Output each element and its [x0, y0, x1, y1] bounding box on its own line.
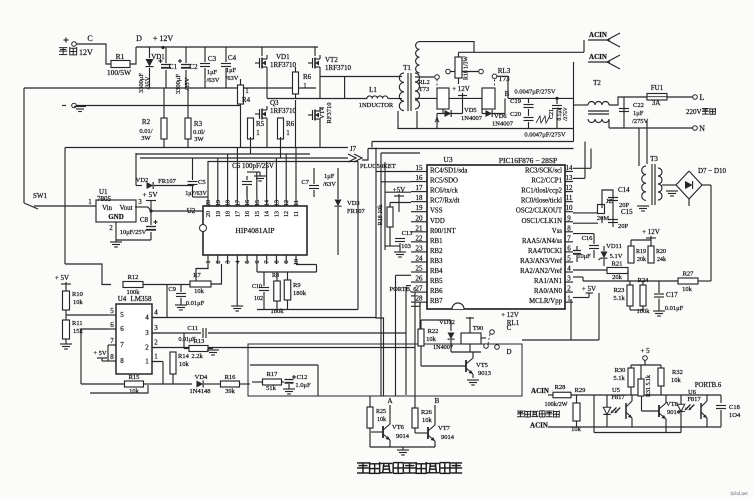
svg-text:RB1: RB1	[430, 238, 442, 245]
svg-text:R21: R21	[612, 261, 623, 268]
svg-text:27: 27	[416, 285, 424, 293]
svg-text:23: 23	[416, 244, 424, 252]
svg-text:8: 8	[274, 261, 280, 264]
svg-text:1: 1	[256, 129, 260, 137]
svg-text:C12: C12	[297, 374, 308, 381]
svg-text:13: 13	[274, 211, 280, 217]
svg-text:RA3/AN3/Vref: RA3/AN3/Vref	[520, 258, 563, 265]
svg-text:4: 4	[567, 265, 571, 273]
svg-text:R14: R14	[178, 353, 190, 360]
svg-text:3: 3	[154, 324, 158, 332]
svg-text:13: 13	[274, 200, 280, 206]
svg-text:ACIN: ACIN	[589, 31, 607, 39]
svg-text:RC5/SDO: RC5/SDO	[430, 178, 458, 185]
svg-text:3300μF: 3300μF	[175, 74, 182, 94]
svg-text:C3: C3	[208, 55, 217, 63]
svg-text:VT4: VT4	[319, 106, 326, 119]
svg-text:3: 3	[567, 275, 571, 283]
svg-text:9: 9	[567, 214, 571, 222]
svg-text:T73: T73	[419, 86, 429, 93]
svg-text:/275V: /275V	[632, 118, 649, 125]
svg-text:1O4: 1O4	[729, 412, 741, 419]
svg-text:R13: R13	[194, 338, 205, 345]
svg-text:5.1k: 5.1k	[613, 375, 625, 382]
svg-text:7: 7	[120, 341, 124, 349]
svg-text:16: 16	[245, 200, 251, 206]
svg-text:3W: 3W	[141, 135, 151, 142]
svg-text:R20: R20	[656, 249, 666, 255]
svg-text:5.1V: 5.1V	[610, 253, 623, 260]
svg-text:3: 3	[226, 261, 232, 264]
svg-text:2: 2	[109, 224, 113, 232]
svg-text:51k: 51k	[266, 385, 277, 392]
svg-text:FR107: FR107	[347, 208, 365, 215]
svg-text:1N4148: 1N4148	[190, 388, 211, 395]
svg-text:/63V: /63V	[226, 75, 239, 82]
svg-text:9014: 9014	[396, 433, 410, 440]
svg-text:C13: C13	[402, 230, 413, 237]
svg-text:VDD: VDD	[430, 218, 445, 225]
svg-text:28: 28	[416, 295, 424, 303]
svg-text:ticbd.net: ticbd.net	[730, 492, 748, 497]
svg-text:R00/1NT: R00/1NT	[430, 228, 457, 235]
svg-text:5.1k: 5.1k	[613, 295, 625, 302]
svg-text:C11: C11	[187, 325, 198, 332]
svg-text:N: N	[699, 124, 705, 133]
svg-text:R5: R5	[256, 120, 265, 128]
svg-text:20k: 20k	[637, 257, 646, 263]
svg-text:VT5: VT5	[476, 362, 488, 369]
svg-text:R19: R19	[636, 249, 646, 255]
svg-text:1μF: 1μF	[324, 173, 335, 180]
svg-text:C21: C21	[549, 109, 555, 119]
svg-text:PLUC50KET: PLUC50KET	[360, 163, 396, 170]
svg-text:VT7: VT7	[438, 425, 451, 432]
svg-text:C19: C19	[510, 98, 521, 105]
svg-text:5: 5	[110, 307, 114, 315]
svg-text:1μF: 1μF	[633, 110, 644, 117]
svg-text:20M: 20M	[597, 215, 610, 222]
svg-text:R7: R7	[193, 272, 201, 279]
svg-text:+ 5V: + 5V	[55, 274, 69, 282]
svg-text:17: 17	[235, 200, 241, 206]
svg-text:C7: C7	[301, 179, 309, 186]
svg-text:+ 12V: + 12V	[153, 34, 174, 43]
svg-text:100/5W: 100/5W	[107, 68, 132, 77]
svg-text:9013: 9013	[478, 370, 491, 377]
svg-text:U2: U2	[187, 207, 196, 215]
svg-text:R8: R8	[272, 273, 279, 279]
svg-text:C10: C10	[252, 284, 262, 290]
svg-text:10k: 10k	[73, 299, 84, 306]
svg-text:RC6/tx/ck: RC6/tx/ck	[430, 188, 459, 195]
svg-text:U3: U3	[443, 155, 452, 164]
svg-text:15: 15	[255, 211, 261, 217]
svg-text:FR107: FR107	[158, 178, 176, 185]
svg-text:9014: 9014	[441, 434, 455, 441]
svg-text:24: 24	[416, 254, 424, 262]
svg-text:1N4007: 1N4007	[433, 344, 453, 351]
svg-text:RB6: RB6	[430, 288, 443, 295]
svg-text:RC3/SCK/scl: RC3/SCK/scl	[525, 168, 562, 175]
svg-text:T3: T3	[650, 155, 658, 163]
svg-text:R10: R10	[72, 291, 83, 298]
svg-text:R18 1/3W: R18 1/3W	[464, 55, 470, 80]
svg-text:/35V: /35V	[145, 76, 152, 89]
svg-text:12: 12	[284, 211, 290, 217]
svg-text:Vout: Vout	[119, 204, 132, 212]
svg-text:22: 22	[416, 234, 424, 242]
svg-text:ACIN: ACIN	[589, 53, 607, 61]
svg-text:GND: GND	[108, 213, 124, 221]
svg-text:1N4007: 1N4007	[461, 115, 483, 122]
svg-text:1RF3710: 1RF3710	[270, 107, 297, 115]
svg-text:T2: T2	[593, 79, 601, 87]
svg-text:/275V: /275V	[563, 107, 569, 121]
svg-text:16: 16	[416, 174, 424, 182]
svg-text:10k: 10k	[671, 377, 682, 384]
svg-text:1.0μF: 1.0μF	[295, 382, 311, 389]
svg-text:C2: C2	[189, 63, 198, 71]
svg-text:2: 2	[145, 344, 149, 352]
svg-text:102: 102	[254, 296, 263, 302]
svg-text:VT2: VT2	[325, 56, 338, 64]
svg-text:R23: R23	[614, 287, 625, 294]
svg-text:SW1: SW1	[33, 192, 48, 200]
svg-text:1μF/63V: 1μF/63V	[185, 191, 207, 197]
svg-text:RB7: RB7	[430, 298, 443, 305]
svg-text:15: 15	[416, 164, 424, 172]
svg-text:R11: R11	[72, 320, 83, 327]
svg-text:20: 20	[206, 211, 212, 217]
svg-text:ACIN: ACIN	[530, 422, 548, 430]
svg-text:1: 1	[88, 198, 92, 206]
svg-text:26: 26	[416, 275, 424, 283]
svg-text:18: 18	[226, 200, 232, 206]
svg-text:RF3710: RF3710	[326, 103, 333, 124]
svg-text:21: 21	[416, 224, 424, 232]
svg-text:39k: 39k	[225, 388, 236, 395]
svg-text:VD4: VD4	[195, 374, 208, 381]
svg-text:0.01/: 0.01/	[139, 128, 152, 135]
svg-text:Vss: Vss	[552, 228, 563, 235]
svg-text:R26: R26	[421, 409, 433, 416]
svg-text:+ 5V: + 5V	[582, 285, 596, 293]
svg-text:VD2: VD2	[136, 177, 149, 184]
svg-text:RC1/tlosl/ccp2: RC1/tlosl/ccp2	[521, 188, 562, 195]
svg-text:RA2/AN2/Vref: RA2/AN2/Vref	[520, 268, 563, 275]
svg-text:RB5: RB5	[430, 278, 443, 285]
svg-text:C14: C14	[618, 186, 630, 194]
svg-text:+5V: +5V	[393, 186, 406, 194]
svg-text:+ 12V: + 12V	[452, 85, 470, 93]
svg-text:1: 1	[206, 261, 212, 264]
svg-text:15: 15	[255, 200, 261, 206]
svg-text:4: 4	[235, 261, 241, 264]
svg-text:14: 14	[265, 211, 271, 217]
svg-text:R31 5.1k: R31 5.1k	[646, 375, 652, 397]
svg-text:Q3: Q3	[270, 99, 279, 107]
svg-text:PORTB, 6: PORTB, 6	[389, 286, 417, 293]
svg-text:20: 20	[206, 200, 212, 206]
svg-text:C1: C1	[169, 63, 178, 71]
svg-text:14: 14	[265, 200, 271, 206]
svg-text:1NDUCTOR: 1NDUCTOR	[359, 102, 394, 109]
svg-text:1: 1	[145, 358, 149, 366]
svg-text:C: C	[507, 324, 512, 332]
svg-text:2: 2	[216, 261, 222, 264]
svg-text:10k: 10k	[194, 288, 205, 295]
svg-text:R4: R4	[242, 96, 251, 104]
svg-text:C4: C4	[228, 54, 237, 62]
svg-text:RA4/T0CKI: RA4/T0CKI	[528, 248, 563, 255]
svg-text:R6: R6	[286, 120, 295, 128]
svg-text:R17: R17	[267, 371, 279, 378]
svg-text:0.01μF: 0.01μF	[665, 305, 684, 312]
svg-text:RC7/Rx/dt: RC7/Rx/dt	[430, 198, 460, 205]
svg-text:11: 11	[294, 211, 300, 217]
svg-text:Vin: Vin	[102, 204, 113, 212]
svg-text:C: C	[87, 34, 92, 43]
svg-text:6: 6	[120, 325, 124, 333]
svg-text:J7: J7	[350, 145, 357, 153]
svg-text:+ 5: + 5	[640, 347, 650, 355]
svg-text:F817: F817	[611, 394, 625, 401]
svg-text:220V: 220V	[686, 108, 702, 116]
svg-text:8: 8	[567, 224, 571, 232]
svg-text:T1: T1	[403, 64, 411, 72]
svg-text:1μF: 1μF	[207, 69, 218, 76]
svg-text:B: B	[435, 397, 440, 405]
svg-text:C20: C20	[510, 111, 521, 118]
svg-text:C18: C18	[729, 404, 740, 411]
svg-text:RL2: RL2	[418, 79, 430, 86]
svg-text:0.0047μF/275V: 0.0047μF/275V	[524, 132, 566, 139]
svg-text:D7 − D10: D7 − D10	[698, 167, 727, 175]
svg-text:B: B	[505, 90, 510, 98]
svg-text:R3: R3	[194, 120, 203, 128]
svg-text:JZ: JZ	[606, 198, 613, 205]
svg-text:3: 3	[138, 198, 142, 206]
svg-text:1N4007: 1N4007	[492, 121, 514, 128]
svg-text:1μF: 1μF	[226, 67, 237, 74]
svg-text:103: 103	[401, 243, 411, 250]
svg-text:+ 5V: + 5V	[142, 190, 158, 199]
svg-text:6: 6	[110, 321, 114, 329]
svg-text:RA0/AN0: RA0/AN0	[534, 288, 563, 295]
svg-text:C16: C16	[582, 235, 594, 242]
svg-text:LM358: LM358	[131, 295, 153, 303]
svg-text:1: 1	[154, 353, 158, 361]
svg-text:5: 5	[567, 254, 571, 262]
svg-text:6: 6	[255, 261, 261, 264]
svg-text:+ 12V: + 12V	[642, 228, 660, 236]
svg-text:3W: 3W	[194, 136, 204, 143]
svg-text:/63V: /63V	[207, 77, 220, 84]
svg-text:12V: 12V	[79, 48, 93, 57]
svg-text:U5: U5	[612, 387, 620, 394]
svg-text:VT6: VT6	[392, 424, 405, 431]
svg-text:1RF3710: 1RF3710	[325, 64, 352, 72]
svg-text:11: 11	[566, 194, 573, 202]
svg-text:R29: R29	[575, 387, 586, 394]
svg-text:D: D	[136, 34, 142, 43]
svg-text:R18 10k: R18 10k	[378, 205, 384, 226]
svg-text:11: 11	[294, 200, 300, 206]
svg-text:R28: R28	[555, 384, 566, 391]
svg-text:ACIN: ACIN	[531, 387, 549, 395]
svg-text:C9: C9	[168, 286, 176, 293]
svg-text:R6: R6	[303, 73, 312, 81]
svg-text:2.2k: 2.2k	[191, 353, 203, 360]
svg-text:T90: T90	[473, 325, 483, 332]
svg-text:R15: R15	[129, 374, 140, 381]
svg-text:RAA5/AN4/ss: RAA5/AN4/ss	[522, 238, 562, 245]
svg-text:1: 1	[286, 129, 290, 137]
svg-text:10: 10	[566, 204, 574, 212]
svg-text:10k: 10k	[422, 417, 433, 424]
svg-text:0.0l/: 0.0l/	[193, 129, 205, 136]
svg-text:8: 8	[110, 353, 114, 361]
svg-text:U4: U4	[118, 295, 127, 303]
svg-text:18: 18	[226, 211, 232, 217]
svg-text:R9: R9	[293, 282, 301, 289]
svg-text:RL3: RL3	[498, 67, 511, 75]
svg-text:20: 20	[416, 214, 424, 222]
svg-text:10k: 10k	[426, 336, 437, 343]
svg-text:16: 16	[245, 211, 251, 217]
svg-text:3: 3	[145, 329, 149, 337]
svg-text:5: 5	[120, 311, 124, 319]
svg-text:U6: U6	[688, 389, 697, 396]
svg-text:+ 5V: + 5V	[93, 350, 107, 357]
svg-text:R32: R32	[672, 369, 683, 376]
svg-text:F817: F817	[687, 396, 701, 403]
svg-text:FU1: FU1	[651, 84, 664, 92]
svg-text:180k: 180k	[293, 290, 307, 297]
svg-text:VT8: VT8	[666, 401, 678, 408]
svg-text:1: 1	[245, 87, 249, 95]
svg-text:18: 18	[416, 194, 424, 202]
svg-text:1: 1	[303, 82, 307, 90]
svg-text:C22: C22	[633, 102, 644, 109]
svg-text:RB4: RB4	[430, 268, 443, 275]
svg-text:7805: 7805	[97, 195, 112, 203]
svg-text:R22: R22	[428, 328, 439, 335]
svg-text:VD11: VD11	[606, 243, 622, 250]
svg-text:10k: 10k	[377, 417, 386, 423]
svg-text:L1: L1	[369, 86, 377, 94]
svg-text:7: 7	[110, 337, 114, 345]
svg-text:VD1: VD1	[151, 53, 165, 61]
svg-text:L: L	[700, 93, 705, 102]
svg-text:2: 2	[567, 285, 571, 293]
svg-text:RC0/tlose/tickl: RC0/tlose/tickl	[521, 198, 562, 205]
svg-text:10k: 10k	[129, 388, 140, 395]
svg-text:+ 12V: + 12V	[501, 311, 519, 319]
svg-text:C6 100pF/25V: C6 100pF/25V	[232, 162, 274, 170]
svg-text:10μF/25V: 10μF/25V	[120, 229, 147, 236]
svg-text:R2: R2	[142, 118, 151, 126]
svg-text:OSC1/CLK1N: OSC1/CLK1N	[522, 218, 563, 225]
svg-text:24k: 24k	[657, 257, 666, 263]
svg-text:4: 4	[145, 314, 149, 322]
svg-text:5: 5	[245, 261, 251, 264]
svg-text:RB2: RB2	[430, 248, 443, 255]
svg-text:8: 8	[120, 357, 124, 365]
svg-text:R27: R27	[683, 271, 695, 278]
svg-text:19: 19	[416, 204, 424, 212]
svg-text:MCLR/Vpp: MCLR/Vpp	[529, 298, 562, 305]
svg-text:9: 9	[284, 261, 290, 264]
svg-text:R30: R30	[615, 367, 626, 374]
svg-text:RC2/CCP1: RC2/CCP1	[531, 178, 562, 185]
svg-text:VD5: VD5	[464, 107, 477, 114]
svg-text:HIP4081AIP: HIP4081AIP	[235, 226, 274, 235]
svg-text:4: 4	[154, 309, 158, 317]
svg-text:10k: 10k	[682, 286, 693, 293]
svg-text:17: 17	[235, 211, 241, 217]
svg-text:9014: 9014	[667, 409, 681, 416]
svg-text:12: 12	[284, 200, 290, 206]
svg-text:20P: 20P	[618, 223, 629, 230]
svg-text:R12: R12	[128, 274, 139, 281]
svg-text:0.01μF: 0.01μF	[186, 300, 205, 307]
svg-text:2: 2	[154, 339, 158, 347]
svg-text:VD6: VD6	[494, 113, 507, 120]
svg-text:/63V: /63V	[323, 181, 336, 188]
svg-text:D: D	[506, 348, 511, 356]
svg-text:VD1: VD1	[276, 53, 290, 61]
svg-text:R16: R16	[225, 374, 237, 381]
svg-text:10k: 10k	[179, 361, 190, 368]
svg-text:C17: C17	[666, 291, 678, 299]
svg-text:12: 12	[566, 184, 574, 192]
svg-text:6: 6	[567, 244, 571, 252]
svg-text:R25: R25	[376, 409, 386, 415]
svg-text:C5: C5	[198, 179, 206, 186]
svg-text:RC4/SD1/sda: RC4/SD1/sda	[430, 168, 467, 175]
svg-text:25: 25	[416, 265, 424, 273]
svg-text:0.0047μF/275V: 0.0047μF/275V	[514, 89, 556, 96]
svg-text:PORTB.6: PORTB.6	[695, 382, 722, 389]
svg-text:OSC2/CLKOUT: OSC2/CLKOUT	[516, 208, 563, 215]
svg-text:3A: 3A	[652, 99, 661, 107]
svg-text:C8: C8	[140, 216, 149, 224]
svg-text:7: 7	[567, 234, 571, 242]
svg-text:17: 17	[416, 184, 424, 192]
svg-text:PIC16F876 − 28SP: PIC16F876 − 28SP	[499, 156, 557, 165]
svg-text:19: 19	[216, 211, 222, 217]
svg-text:1RF3710: 1RF3710	[270, 61, 297, 69]
svg-text:VSS: VSS	[430, 208, 443, 215]
svg-text:R1: R1	[116, 52, 125, 61]
svg-text:C15: C15	[621, 208, 633, 216]
svg-text:20k: 20k	[612, 274, 623, 281]
svg-text:RB3: RB3	[430, 258, 443, 265]
svg-text:19: 19	[216, 200, 222, 206]
svg-text:7: 7	[265, 261, 271, 264]
svg-text:100k/2W: 100k/2W	[544, 401, 567, 408]
svg-text:14: 14	[566, 164, 574, 172]
svg-text:A: A	[387, 397, 392, 405]
svg-text:RA1/AN1: RA1/AN1	[534, 278, 562, 285]
svg-text:13: 13	[566, 174, 574, 182]
